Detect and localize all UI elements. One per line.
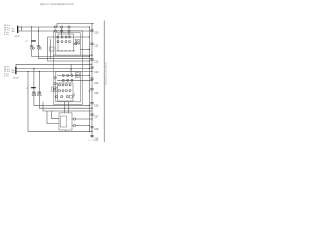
pin circle P15 — [54, 77, 56, 79]
pin circle P21 — [59, 90, 61, 92]
series capacitor CB8 — [90, 114, 93, 115]
pin circle P2 — [61, 36, 63, 38]
wire row SW2 — [57, 74, 89, 76]
node C3 rail — [38, 30, 39, 31]
bus line VOUT — [88, 27, 90, 131]
svg-text:C15: C15 — [94, 93, 99, 95]
input bulk capacitor C4 body — [15, 67, 16, 74]
bus line GND — [92, 24, 94, 139]
pin circle P16 — [54, 83, 56, 85]
pin circle P29 — [73, 124, 75, 126]
svg-text:C16: C16 — [94, 105, 99, 107]
wire rail1 VIN1 — [18, 26, 89, 28]
series capacitor CB4 — [90, 67, 93, 68]
wire up corner — [73, 94, 75, 97]
wire rail4 EN2 — [17, 71, 93, 73]
series capacitor CB9 — [90, 127, 93, 128]
svg-text:EN: EN — [12, 72, 15, 74]
series capacitor CB6 — [90, 89, 93, 90]
series capacitor CB3 — [90, 59, 93, 60]
svg-text:FB: FB — [73, 51, 76, 53]
series capacitor CB1 — [90, 30, 93, 31]
series capacitor CB7 — [90, 103, 93, 104]
capacitor C2 body — [31, 47, 33, 49]
svg-text:C11: C11 — [94, 45, 99, 47]
inductor L1 body — [31, 40, 36, 41]
IC U1B body — [58, 83, 74, 101]
svg-text:C17: C17 — [94, 117, 99, 119]
wire rail3 VIN2 — [17, 68, 90, 70]
series capacitor CB2 — [90, 43, 93, 44]
capacitor C5 plates — [32, 91, 35, 93]
wire LDO in2 — [47, 111, 59, 124]
wire LDO out1 — [72, 118, 73, 120]
pin circle P20 — [69, 84, 71, 86]
svg-text:Figure 41. Typical Application: Figure 41. Typical Application Circuit — [40, 3, 74, 6]
capacitor C5 drop wire — [33, 69, 35, 94]
wire C5 to bus — [34, 96, 90, 105]
svg-text:C10: C10 — [94, 33, 99, 35]
node GND rail — [27, 71, 28, 72]
pin circle P28 — [73, 118, 75, 120]
wire COMP1 — [48, 37, 90, 61]
svg-text:L = 1.5 µH: L = 1.5 µH — [88, 140, 99, 142]
pin circle P10 — [67, 74, 69, 76]
svg-text:3 V in: 3 V in — [4, 76, 9, 78]
pin circle P27 — [66, 96, 68, 98]
LDO U2 inner body — [61, 116, 67, 127]
wire rail2 EN1 — [18, 30, 92, 32]
wire VCC2 — [16, 64, 92, 67]
pin circle P13 — [67, 79, 69, 81]
pin circle P23 — [66, 90, 68, 92]
wire row FB2 — [57, 79, 92, 81]
capacitor C2 plates — [30, 45, 33, 47]
capacitor C3 body — [37, 47, 39, 49]
module U1 outline — [54, 31, 83, 105]
bus cap labels — [94, 33, 99, 141]
wire LDO in1 — [51, 111, 59, 118]
pin circle P11 — [71, 74, 73, 76]
wire stub J1 — [20, 27, 22, 31]
pin circle P1 — [57, 36, 59, 38]
capacitor C3 plates — [37, 45, 40, 47]
pin circle P25 — [55, 96, 57, 98]
svg-text:C13: C13 — [94, 72, 99, 74]
inductor L2 body — [31, 87, 36, 88]
capacitor C5 body — [32, 94, 34, 96]
pin circle P3 — [65, 36, 67, 38]
wire U1B to LDO stub1 — [64, 102, 66, 113]
wire C6 to bus — [39, 96, 92, 108]
test point TP2 — [61, 26, 63, 28]
pin circle P5 — [57, 41, 59, 43]
svg-text:LT: LT — [26, 88, 29, 90]
svg-text:DT: DT — [26, 41, 29, 43]
svg-text:C12: C12 — [94, 61, 99, 63]
regulator block A outline — [56, 33, 81, 55]
node J1 — [21, 26, 22, 27]
test point TP4 — [54, 30, 56, 32]
svg-text:C14: C14 — [94, 83, 99, 85]
svg-text:C18: C18 — [94, 129, 99, 131]
svg-text:Submit Docu Feedback: Submit Docu Feedback — [105, 61, 108, 85]
pin circle P17 — [59, 84, 61, 86]
svg-text:EN: EN — [12, 31, 15, 33]
pin circle P22 — [62, 90, 64, 92]
pin circle P19 — [66, 84, 68, 86]
junction dots on VOUT bus — [89, 26, 90, 132]
capacitor C6 plates — [38, 91, 41, 93]
pin circle P4 — [69, 36, 71, 38]
wire C2 to bus — [32, 49, 90, 56]
wire GND left drop — [28, 72, 92, 132]
wire row SW1 — [48, 36, 90, 38]
svg-text:MC22: MC22 — [14, 78, 19, 80]
wire top VCC — [57, 24, 94, 28]
connector J2 input label text — [4, 67, 19, 80]
capacitor C2 drop wire — [31, 27, 33, 47]
diode D1 in square — [75, 39, 79, 44]
wire LDO out2 — [72, 125, 73, 127]
wire AUX to bus — [43, 102, 92, 111]
pin circle P18 — [62, 84, 64, 86]
svg-text:3 V in: 3 V in — [4, 34, 9, 36]
capacitor C6 body — [37, 94, 39, 96]
wire C3 to bus — [39, 49, 93, 59]
wire VSENSE1 — [80, 48, 89, 50]
test point TP3 — [68, 26, 70, 28]
node C6 rail — [39, 71, 40, 72]
svg-text:MC21: MC21 — [15, 36, 20, 38]
series capacitor CB10 — [90, 135, 93, 136]
pin circle P8 — [69, 41, 71, 43]
wire LDO gnd stub — [65, 130, 67, 131]
pin circle P7 — [65, 41, 67, 43]
pin circle P6 — [61, 41, 63, 43]
pin circle P14 — [71, 79, 73, 81]
capacitor C6 drop wire — [38, 72, 40, 94]
pin labels U1A — [56, 51, 75, 53]
pin circle P26 — [61, 96, 63, 98]
IC U1A body — [58, 34, 74, 51]
connector J1 input label text — [4, 25, 20, 38]
input bulk capacitor C1 body — [17, 26, 18, 33]
wire FB1A — [74, 43, 75, 45]
diode D2 in square — [75, 73, 79, 78]
test point TP1 — [54, 26, 56, 28]
capacitor C3 drop wire — [38, 27, 40, 47]
test point TP6 — [68, 30, 70, 32]
page border right — [103, 21, 105, 143]
pin circle FB1A — [75, 43, 77, 45]
component D4 box — [70, 95, 73, 98]
junction dots on GND bus — [91, 30, 92, 132]
wire VOUT1 — [53, 54, 92, 56]
LDO U2 outline — [59, 113, 72, 130]
component R2 box — [52, 87, 58, 92]
node C5 rail — [33, 68, 34, 69]
regulator block B outline — [56, 71, 81, 102]
pin circle P9 — [62, 74, 64, 76]
pin circle P12 — [62, 79, 64, 81]
node C2 rail — [31, 26, 32, 27]
wire FB1 — [49, 39, 51, 59]
wire U1B to LDO stub2 — [68, 102, 70, 113]
diode D3 — [70, 69, 72, 71]
series capacitor CB5 — [90, 78, 93, 79]
wire column link2 — [68, 32, 70, 36]
feedback component R1 box — [50, 47, 55, 51]
wire column link1 — [61, 28, 63, 36]
test point TP5 — [61, 30, 63, 32]
pin circle P24 — [69, 90, 71, 92]
